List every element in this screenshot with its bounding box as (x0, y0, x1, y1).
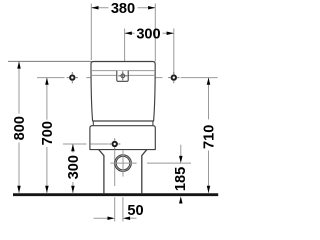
extension line outlet center (185 ref) (147, 162, 191, 164)
tank-bowl joint notch right (152, 121, 154, 126)
dim 700 arrow down (45, 186, 49, 193)
outlet pipe inner circle (116, 156, 130, 170)
extension line 300 top left (124, 29, 126, 72)
svg-text:800: 800 (12, 116, 28, 140)
dim 300 vertical line (72, 144, 74, 193)
svg-text:300: 300 (136, 26, 160, 42)
svg-text:710: 710 (201, 125, 217, 149)
dim 700 arrow up (45, 78, 49, 85)
dim 300 top line (125, 32, 174, 34)
tank seam line upper (91, 70, 155, 72)
tank inlet square (117, 71, 128, 82)
mounting hole right (168, 72, 179, 83)
dim 710 arrow down (207, 186, 211, 193)
extension line 380 left (90, 4, 92, 61)
pedestal foot left edge (99, 150, 104, 194)
dim 380 arrow left (91, 6, 98, 10)
extension line 380 right (154, 4, 156, 62)
dim 50 line left with arrow (94, 217, 111, 219)
svg-text:185: 185 (173, 167, 189, 191)
mounting hole left (67, 72, 78, 83)
dim 800 arrow up (17, 61, 21, 68)
lower hole center line horizontal (90, 143, 108, 145)
dim 300 top arrow right (167, 31, 174, 35)
dim 50 line right with arrow (128, 217, 137, 219)
extension line holes right (710 ref) (156, 77, 218, 79)
extension line lower hole (300 ref) (63, 143, 87, 145)
dim 800 arrow down (17, 186, 21, 193)
tank seam line lower (91, 74, 155, 76)
dim 380 arrow right (148, 6, 155, 10)
dim 300 vertical arrow down (71, 186, 75, 193)
dim 50 extension line right (122, 197, 124, 221)
dim 185 upper arrow (180, 145, 182, 160)
outlet center line vertical (122, 150, 124, 176)
svg-text:380: 380 (111, 1, 135, 17)
dim 800 line (18, 61, 20, 193)
extension line holes left (700 ref) (37, 77, 94, 79)
dim 300 vertical arrow up (71, 144, 75, 151)
svg-text:700: 700 (40, 121, 56, 145)
dim 300 top arrow left (125, 31, 132, 35)
outlet center line horizontal (110, 162, 136, 164)
lower fixing hole crosshair (109, 138, 120, 149)
svg-text:50: 50 (127, 203, 143, 219)
tank-bowl joint notch left (92, 121, 94, 126)
dim 700 line (46, 78, 48, 193)
pedestal foot right edge (142, 150, 147, 194)
lower hole center line vertical (114, 150, 116, 186)
dim 380 line (91, 7, 155, 9)
svg-text:300: 300 (66, 155, 82, 179)
outlet pipe outer circle (115, 155, 132, 172)
extension line 300 top right (173, 29, 175, 75)
tank outline (91, 62, 155, 122)
dim 50 extension line left (114, 197, 116, 221)
dim 710 arrow up (207, 78, 211, 85)
dim 710 line (208, 78, 210, 193)
floor line (13, 193, 218, 196)
extension line tank top (800 ref) (8, 60, 92, 62)
dim 185 lower arrow (180, 200, 182, 204)
bowl upper body outline (90, 126, 155, 150)
tank inlet hole crosshair (118, 71, 127, 80)
